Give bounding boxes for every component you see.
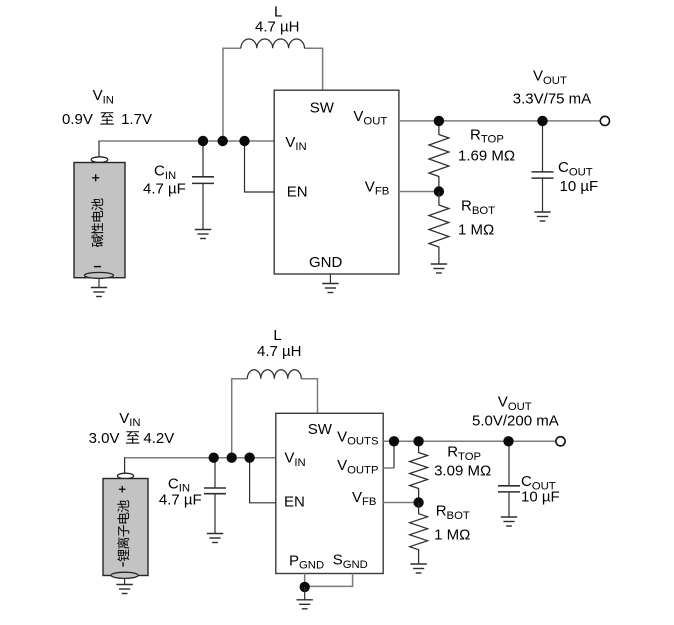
- svg-text:0.9V: 0.9V: [62, 111, 93, 128]
- svg-text:3.3V/75 mA: 3.3V/75 mA: [513, 90, 591, 107]
- svg-text:1.7V: 1.7V: [121, 111, 152, 128]
- svg-text:10 µF: 10 µF: [560, 178, 599, 195]
- svg-text:L: L: [273, 327, 281, 344]
- svg-text:SW: SW: [308, 421, 333, 438]
- svg-text:4.7 µF: 4.7 µF: [143, 181, 186, 198]
- svg-text:EN: EN: [287, 184, 308, 201]
- svg-text:4.7 µH: 4.7 µH: [255, 19, 300, 36]
- svg-text:GND: GND: [309, 254, 343, 271]
- svg-text:EN: EN: [284, 493, 305, 510]
- svg-text:1.69 MΩ: 1.69 MΩ: [458, 147, 515, 164]
- svg-text:1 MΩ: 1 MΩ: [434, 527, 470, 544]
- svg-text:4.7 µF: 4.7 µF: [159, 491, 202, 508]
- svg-text:4.7 µH: 4.7 µH: [257, 343, 302, 360]
- svg-text:4.2V: 4.2V: [143, 430, 174, 447]
- svg-text:5.0V/200 mA: 5.0V/200 mA: [472, 412, 559, 429]
- svg-text:3.0V: 3.0V: [89, 430, 120, 447]
- svg-text:3.09 MΩ: 3.09 MΩ: [434, 463, 491, 480]
- svg-text:SW: SW: [310, 100, 335, 117]
- svg-text:1 MΩ: 1 MΩ: [458, 222, 494, 239]
- svg-text:10 µF: 10 µF: [521, 489, 560, 506]
